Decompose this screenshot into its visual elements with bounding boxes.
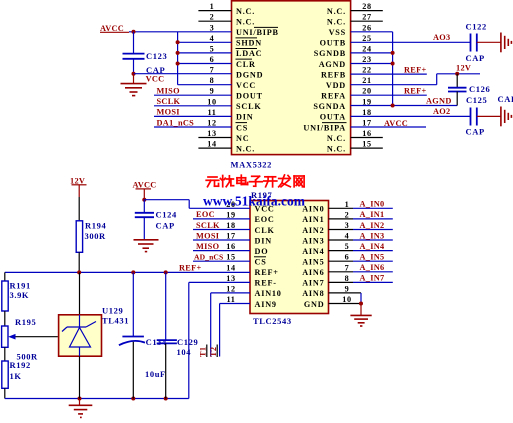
U2 right pin 4 name AIN3 — [302, 236, 324, 245]
R192 value 1K — [10, 371, 22, 381]
svg-text:C124: C124 — [156, 210, 177, 220]
junction R194/rail — [77, 270, 81, 274]
svg-text:REF+: REF+ — [404, 87, 427, 96]
U2 right pin number 5 — [345, 242, 350, 251]
U1 right pin number 28 — [362, 2, 371, 11]
svg-text:2: 2 — [210, 13, 215, 22]
U1 right pin number 19 — [362, 97, 371, 106]
svg-text:CLK: CLK — [255, 226, 275, 235]
svg-text:AIN10: AIN10 — [255, 289, 282, 298]
svg-text:MOSI: MOSI — [157, 108, 180, 117]
svg-text:12V: 12V — [70, 176, 85, 185]
svg-text:VCC: VCC — [146, 74, 165, 83]
U1 right pin 24 name SGNDB — [314, 49, 346, 58]
wire pin 21 VDD to 12V — [351, 74, 480, 85]
U1 right pin number 16 — [362, 129, 371, 138]
pin stub 27 — [351, 20, 383, 22]
U2 left pin 12 name AIN10 — [255, 289, 282, 298]
net label A_IN7 — [360, 274, 385, 283]
svg-text:5: 5 — [210, 44, 215, 53]
U1 right pin 28 name N.C. — [327, 7, 346, 16]
U2 right pin 3 name AIN2 — [302, 226, 324, 235]
U1 right pin number 15 — [362, 140, 371, 149]
svg-text:AIN2: AIN2 — [302, 226, 324, 235]
R191 label — [10, 281, 31, 291]
pin stub 13 — [198, 137, 231, 139]
svg-text:REF+: REF+ — [255, 268, 279, 277]
U2 right pin number 2 — [345, 210, 350, 219]
U2 right pin number 3 — [345, 221, 350, 230]
svg-text:13: 13 — [207, 129, 216, 138]
wire AVCC rail to pin 3 — [129, 31, 232, 33]
U1 right pin 26 name VSS — [329, 28, 346, 37]
svg-text:A_IN2: A_IN2 — [360, 221, 385, 230]
svg-text:18: 18 — [362, 108, 371, 117]
net label MISO — [157, 87, 181, 96]
vertical ground bus right — [392, 32, 394, 106]
U1 right pin number 25 — [362, 34, 371, 43]
shunt reference U129 TL431 — [59, 315, 102, 356]
wire pin 10 GND — [329, 303, 362, 305]
wire A_IN6 — [329, 271, 393, 273]
U1 right pin 19 name SGNDA — [313, 102, 346, 111]
U1 left pin 5 name LDAC — [236, 49, 263, 59]
svg-text:15: 15 — [226, 253, 235, 262]
svg-text:R195: R195 — [15, 317, 36, 327]
junction pin5 — [176, 51, 180, 55]
svg-text:AGND: AGND — [319, 60, 346, 69]
U2 left pin 13 name REF- — [255, 279, 277, 288]
junction on AVCC rail — [132, 30, 136, 34]
svg-text:AIN1: AIN1 — [302, 215, 324, 224]
wire MOSI to pin 11 — [154, 115, 232, 117]
junction TL431/bottom — [78, 397, 82, 401]
U2 left pin number 13 — [226, 274, 235, 283]
wire pot to R192 — [4, 347, 6, 361]
junction pin23 — [391, 62, 395, 66]
U2 left pin 20 name VCC — [255, 205, 275, 214]
R194 label — [85, 220, 106, 230]
resistor R191 — [2, 281, 8, 311]
wire TL431 to bottom rail — [79, 356, 81, 398]
U2 left pin number 15 — [226, 253, 235, 262]
U1 right pin number 21 — [362, 76, 371, 85]
junction pin19 — [391, 104, 395, 108]
net label A_IN6 — [360, 263, 385, 272]
svg-text:GND: GND — [304, 300, 325, 309]
power port AVCC (chip2) — [133, 180, 157, 199]
svg-text:11: 11 — [227, 295, 236, 304]
wire bottom ground rail — [5, 398, 189, 400]
svg-text:CS: CS — [236, 123, 248, 132]
U2 left pin number 18 — [226, 221, 235, 230]
svg-text:27: 27 — [362, 13, 371, 22]
junction C134/bottom — [131, 397, 135, 401]
svg-text:LDAC: LDAC — [236, 49, 262, 58]
U1 right pin 23 name AGND — [319, 60, 346, 69]
svg-text:REF+: REF+ — [179, 263, 202, 272]
svg-text:9: 9 — [210, 87, 215, 96]
svg-text:1: 1 — [345, 200, 350, 209]
U1 right pin number 22 — [362, 66, 371, 75]
svg-text:MOSI: MOSI — [196, 231, 219, 240]
U2 left pin number 16 — [226, 242, 235, 251]
svg-text:A_IN5: A_IN5 — [360, 253, 385, 262]
svg-text:A_IN7: A_IN7 — [360, 274, 385, 283]
U1 right pin 20 name REFA — [321, 92, 346, 101]
C129 value 104 — [177, 347, 192, 357]
wire DA1_nCS to pin 12 — [154, 126, 232, 128]
U2 right pin 7 name AIN6 — [302, 268, 324, 277]
net label AO3 — [433, 33, 451, 42]
svg-text:CAP: CAP — [498, 94, 513, 104]
C122 label — [466, 22, 487, 32]
U1 left pin 3 name UNI/BIPB — [236, 27, 279, 37]
U1 left pin 11 name DIN — [236, 113, 253, 122]
U2 left pin 11 name AIN9 — [255, 300, 277, 309]
svg-text:10: 10 — [342, 295, 351, 304]
wire pin 8 — [178, 84, 232, 86]
wire C134 to bottom rail — [132, 342, 134, 399]
U1 left pin 8 name VCC — [236, 81, 256, 90]
svg-text:9: 9 — [345, 284, 350, 293]
wire REF+ rail — [5, 271, 250, 273]
wire pin 18 AO2 — [351, 115, 470, 117]
power port 12V left — [70, 176, 87, 197]
wire A_IN1 — [329, 218, 393, 220]
U2 refdes R197 — [251, 190, 272, 200]
svg-text:1: 1 — [210, 2, 215, 11]
svg-text:U129: U129 — [102, 305, 123, 315]
U1 left pin number 14 — [207, 140, 216, 149]
U1 left pin number 7 — [210, 66, 215, 75]
svg-text:EOC: EOC — [196, 210, 215, 219]
junction DGND node — [132, 72, 136, 76]
junction AVCC chip2 — [142, 198, 146, 202]
svg-text:14: 14 — [226, 263, 235, 272]
U2 left pin 16 name DO — [255, 247, 269, 256]
U1 right pin number 26 — [362, 23, 371, 32]
U2 right pin 1 name AIN0 — [302, 205, 324, 214]
svg-text:MISO: MISO — [157, 87, 181, 96]
U1 left pin 2 name N.C. — [236, 18, 255, 27]
U2 left pin 15 name CS — [254, 257, 267, 267]
svg-text:3.9K: 3.9K — [10, 290, 30, 300]
svg-text:OUTB: OUTB — [320, 39, 346, 48]
svg-text:N.C.: N.C. — [236, 18, 255, 27]
svg-text:OUTA: OUTA — [320, 113, 346, 122]
svg-text:DA1_nCS: DA1_nCS — [157, 118, 195, 127]
svg-text:SHDN: SHDN — [236, 39, 262, 48]
U1 left pin number 9 — [210, 87, 215, 96]
svg-text:28: 28 — [362, 2, 371, 11]
wire SCLK to pin 10 — [154, 105, 232, 107]
junction pin4 — [176, 40, 180, 44]
U2 right pin 8 name AIN7 — [302, 279, 324, 288]
U1 left pin 13 name NC — [236, 134, 249, 143]
U2 left pin 18 name CLK — [255, 226, 275, 235]
svg-text:C123: C123 — [146, 51, 167, 61]
C124 label — [156, 210, 177, 220]
C134 label — [146, 337, 167, 347]
pin stub 14 — [198, 147, 231, 149]
svg-text:REF+: REF+ — [404, 65, 427, 74]
resistor R194 — [76, 221, 82, 253]
wire R191 to pot — [4, 311, 6, 326]
svg-text:23: 23 — [362, 55, 371, 64]
C124 value CAP — [156, 220, 175, 230]
R191 value 3.9K — [10, 290, 30, 300]
net label A_IN1 — [360, 210, 385, 219]
U2 right pin 5 name AIN4 — [302, 247, 324, 256]
R195 value 500R — [17, 351, 39, 361]
pin stub 1 — [198, 10, 231, 12]
svg-text:22: 22 — [362, 66, 371, 75]
wire A_IN4 — [329, 250, 393, 252]
ground symbol below C123 — [121, 74, 147, 96]
U1 left pin 9 name DOUT — [236, 92, 263, 101]
svg-text:7: 7 — [345, 263, 350, 272]
net label AD_nCS — [194, 253, 223, 262]
svg-text:3: 3 — [210, 23, 215, 32]
net label MISO — [196, 242, 220, 251]
svg-text:18: 18 — [226, 221, 235, 230]
U1 left pin 1 name N.C. — [236, 7, 255, 16]
ground symbol right of C125 — [501, 107, 512, 127]
power port 12V right — [456, 64, 471, 73]
junction pin24 — [391, 51, 395, 55]
wire pin 11 AIN9 to T2 — [220, 304, 250, 357]
junction C134/rail — [131, 270, 135, 274]
U2 right pin number 1 — [345, 200, 350, 209]
svg-text:REFA: REFA — [321, 92, 346, 101]
svg-text:DOUT: DOUT — [236, 92, 263, 101]
IC U1 MAX5322 body — [232, 1, 351, 155]
svg-text:N.C.: N.C. — [327, 134, 346, 143]
U1 left pin 6 name CLR — [236, 59, 256, 69]
svg-text:12: 12 — [226, 284, 235, 293]
capacitor C129 — [157, 340, 177, 343]
svg-text:19: 19 — [226, 210, 235, 219]
C122 value CAP — [466, 53, 485, 63]
wire R192 to bottom rail — [4, 388, 6, 398]
wire pin 12 AIN10 to T1 — [211, 293, 250, 357]
U1 left pin 4 name SHDN — [236, 38, 262, 48]
svg-text:12: 12 — [207, 119, 216, 128]
svg-text:SGNDA: SGNDA — [313, 102, 346, 111]
U2 right pin 6 name AIN5 — [302, 258, 324, 267]
svg-text:N.C.: N.C. — [236, 144, 255, 153]
U2 left pin 19 name EOC — [255, 215, 275, 224]
junction pin6 — [176, 62, 180, 66]
U1 right pin 15 name N.C. — [327, 144, 346, 153]
resistor R192 — [2, 361, 8, 388]
U2 left pin number 14 — [226, 263, 235, 272]
power port AVCC top-left — [100, 24, 129, 33]
svg-text:MISO: MISO — [196, 242, 220, 251]
U2 right pin 10 name GND — [304, 300, 325, 309]
vertical AVCC bus to pins 4,5,6,8 — [177, 32, 179, 85]
junction 12V — [455, 72, 459, 76]
wire EOC to chip2 — [193, 218, 250, 220]
U1 right pin 18 name OUTA — [320, 113, 346, 122]
ground symbol chip2 GND — [350, 304, 371, 327]
pin stub 15 — [351, 147, 383, 149]
wire 12V to R194 — [78, 197, 80, 221]
svg-text:R194: R194 — [85, 220, 106, 230]
wire pin 26 VSS — [351, 31, 393, 33]
svg-text:AVCC: AVCC — [384, 119, 408, 128]
svg-text:SCLK: SCLK — [236, 102, 262, 111]
R195 label — [15, 317, 36, 327]
svg-text:T1: T1 — [199, 347, 208, 357]
wire R194 to REF+ rail — [78, 252, 80, 272]
U1 left pin 10 name SCLK — [236, 102, 262, 111]
U1 right pin 22 name REFB — [321, 70, 346, 79]
wire C124 to ground — [143, 217, 145, 239]
ground symbol right of C122 — [501, 33, 512, 53]
U2 left pin number 12 — [226, 284, 235, 293]
svg-text:SGNDB: SGNDB — [314, 49, 346, 58]
svg-text:26: 26 — [362, 23, 371, 32]
svg-text:N.C.: N.C. — [327, 144, 346, 153]
wire rail to TL431 — [79, 272, 81, 314]
R192 label — [10, 360, 31, 370]
svg-text:A_IN6: A_IN6 — [360, 263, 385, 272]
U1 left pin number 3 — [210, 23, 215, 32]
svg-text:AIN7: AIN7 — [302, 279, 324, 288]
svg-text:3: 3 — [345, 221, 350, 230]
wire AVCC vertical to C123 — [133, 32, 135, 53]
svg-text:8: 8 — [210, 76, 215, 85]
svg-text:CAP: CAP — [156, 220, 175, 230]
svg-text:REF-: REF- — [255, 279, 277, 288]
svg-text:CS: CS — [255, 258, 267, 267]
wire pin 24 — [351, 52, 393, 54]
svg-text:DIN: DIN — [236, 113, 253, 122]
svg-text:TL431: TL431 — [102, 315, 129, 325]
svg-text:4: 4 — [345, 232, 350, 241]
svg-text:10uF: 10uF — [145, 369, 166, 379]
net label A_IN4 — [360, 242, 385, 251]
svg-text:AIN4: AIN4 — [302, 247, 324, 256]
U1 left pin number 5 — [210, 44, 215, 53]
U1 right pin 21 name VDD — [326, 81, 346, 90]
U1 right pin 27 name N.C. — [327, 18, 346, 27]
svg-text:C125: C125 — [466, 95, 487, 105]
U1 left pin 7 name DGND — [236, 70, 263, 79]
junction GND — [359, 302, 363, 306]
svg-text:25: 25 — [362, 34, 371, 43]
U1 left pin number 4 — [210, 34, 215, 43]
svg-text:VSS: VSS — [329, 28, 346, 37]
svg-text:REFB: REFB — [321, 70, 346, 79]
net label REF+ (pin22) — [404, 65, 427, 74]
U2 left pin number 20 — [226, 200, 235, 209]
U1 part name MAX5322 — [231, 160, 273, 170]
net label A_IN3 — [360, 231, 385, 240]
svg-text:16: 16 — [226, 242, 235, 251]
svg-text:MAX5322: MAX5322 — [231, 160, 273, 170]
wire A_IN0 — [329, 207, 393, 209]
net label A_IN5 — [360, 253, 385, 262]
svg-text:VDD: VDD — [326, 81, 346, 90]
wire A_IN2 — [329, 229, 393, 231]
U2 right pin number 4 — [345, 232, 350, 241]
U1 left pin 14 name N.C. — [236, 144, 255, 153]
svg-text:21: 21 — [362, 76, 371, 85]
svg-text:A_IN1: A_IN1 — [360, 210, 385, 219]
C125 label — [466, 95, 487, 105]
U2 right pin number 9 — [345, 284, 350, 293]
capacitor C123 — [123, 54, 145, 59]
C126 value CAP (clipped) — [498, 94, 513, 104]
svg-text:AD_nCS: AD_nCS — [194, 253, 223, 262]
wire A_IN3 — [329, 239, 393, 241]
svg-text:UNI/BIPA: UNI/BIPA — [303, 123, 346, 132]
net label AO2 — [433, 107, 451, 116]
U2 right pin number 7 — [345, 263, 350, 272]
svg-text:13: 13 — [226, 274, 235, 283]
junction C129/bottom — [164, 397, 168, 401]
svg-text:2: 2 — [345, 210, 350, 219]
svg-text:SCLK: SCLK — [196, 221, 220, 230]
svg-text:17: 17 — [362, 119, 371, 128]
U2 left pin 17 name DIN — [255, 236, 272, 245]
U1 right pin number 20 — [362, 87, 371, 96]
svg-text:14: 14 — [207, 140, 216, 149]
svg-text:TLC2543: TLC2543 — [253, 316, 292, 326]
svg-text:AIN8: AIN8 — [302, 289, 324, 298]
net label DA1_nCS — [157, 118, 195, 127]
svg-text:A_IN3: A_IN3 — [360, 231, 385, 240]
svg-text:NC: NC — [236, 134, 249, 143]
U2 right pin number 10 — [342, 295, 351, 304]
pin stub 28 — [351, 10, 383, 12]
wire C122 to ground — [477, 41, 501, 43]
potentiometer R195 — [2, 326, 58, 347]
svg-text:AIN3: AIN3 — [302, 236, 324, 245]
svg-text:DO: DO — [255, 247, 269, 256]
svg-text:UNI/BIPB: UNI/BIPB — [236, 28, 279, 37]
wire DGND node to pin 7 — [134, 73, 232, 75]
wire pin 17 AVCC — [351, 126, 426, 128]
U2 left pin 14 name REF+ — [255, 268, 279, 277]
U1 right pin 25 name OUTB — [320, 39, 346, 48]
U2 part name TLC2543 — [253, 316, 292, 326]
svg-text:104: 104 — [177, 347, 192, 357]
R194 value 300R — [85, 231, 107, 241]
wire C123 bottom to DGND node — [133, 59, 135, 74]
wire rail corner down to R191 — [4, 272, 6, 281]
capacitor C124 — [135, 213, 154, 217]
wire AD_nCS to chip2 — [193, 260, 250, 262]
svg-text:N.C.: N.C. — [327, 7, 346, 16]
net label EOC — [196, 210, 215, 219]
wire C129 to bottom rail — [165, 343, 167, 398]
U1 right pin 17 name UNI/BIPA — [303, 123, 346, 133]
U1 left pin number 1 — [210, 2, 215, 11]
wire pin 23 — [351, 63, 393, 65]
ground symbol bottom — [69, 399, 93, 418]
wire rail to C134 — [132, 272, 134, 336]
U2 left pin number 19 — [226, 210, 235, 219]
capacitor C126 — [448, 74, 467, 106]
C134 value 10uF — [145, 369, 166, 379]
svg-text:C126: C126 — [469, 84, 490, 94]
svg-text:AO2: AO2 — [433, 107, 451, 116]
svg-text:CLR: CLR — [236, 60, 256, 69]
